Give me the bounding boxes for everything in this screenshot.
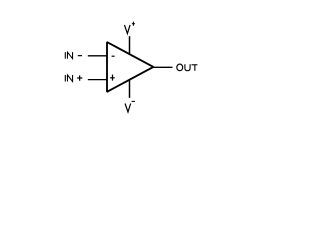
op-amp non-inverting input marker + [110, 75, 115, 81]
op-amp inverting input marker - [112, 55, 115, 57]
pin V+ positive supply lead [129, 36, 131, 55]
wire IN+ non-inverting input lead [88, 79, 108, 81]
label IN+ text [65, 75, 82, 82]
label IN- text [65, 52, 82, 59]
op-amp U1 triangle body [107, 42, 153, 92]
wire OUT output lead [153, 66, 173, 68]
label V- supply name [125, 101, 135, 112]
label V+ supply name [124, 22, 135, 34]
wire IN- inverting input lead [88, 55, 108, 57]
label OUT text [177, 64, 198, 71]
pin V- negative supply lead [129, 79, 131, 98]
